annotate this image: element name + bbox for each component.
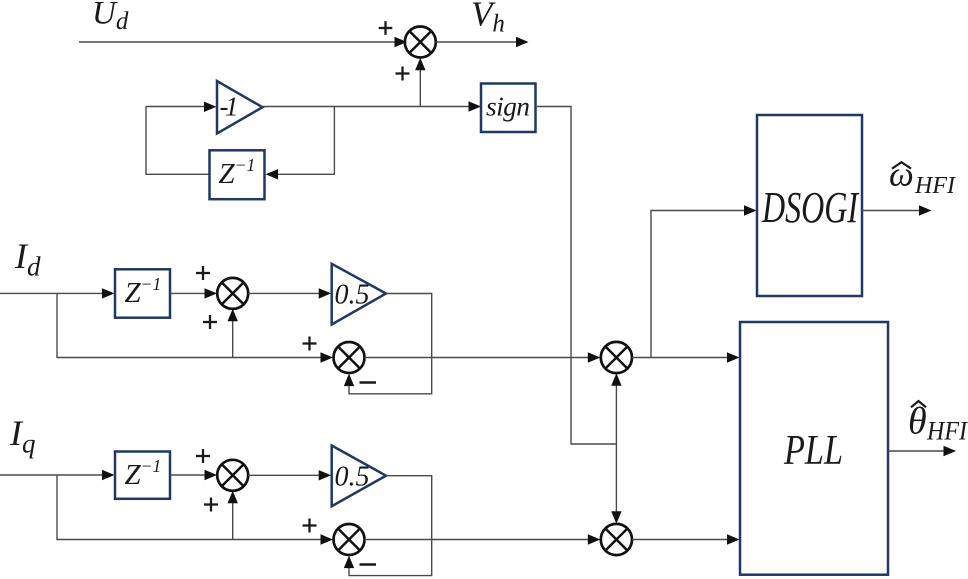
wire sign output down to multiplier junction (536, 107, 617, 445)
minus sign (M5 bottom input) (360, 563, 377, 566)
wire PLL theta output (888, 446, 956, 456)
DSOGI block (757, 115, 862, 296)
svg-text:HFI: HFI (914, 173, 956, 199)
minus sign (M2 bottom input) (360, 381, 377, 384)
wire junction down into M6 (611, 444, 621, 524)
multiplier M3 (601, 342, 632, 373)
label theta-hat HFI (908, 401, 968, 446)
multiplier M6 (601, 524, 632, 555)
adder M4 (217, 460, 248, 491)
plus sign (M4 bottom input) (204, 498, 218, 512)
wire Z3 output to M4 (170, 470, 217, 480)
wire I_d input (0, 288, 115, 298)
wire I_d branch to lower rail into M2 (57, 293, 333, 362)
wire G3 output feedback into M5 bottom (344, 476, 432, 576)
svg-text:-1: -1 (220, 92, 239, 122)
delay block Z3 (115, 452, 170, 499)
wire junction up into M3 (611, 373, 621, 444)
wire M1 output to G2 (248, 288, 331, 298)
PLL block (740, 322, 888, 575)
plus sign (M2 left input) (303, 337, 317, 351)
wire I_q branch to lower rail into M5 (57, 475, 333, 545)
wire branch down into Z1 input (266, 107, 335, 180)
sign block (481, 84, 536, 133)
wire lower rail up into M4 (228, 491, 238, 540)
delay block Z1 (210, 150, 265, 199)
plus sign (M4 left input) (196, 449, 210, 463)
plus sign (S1 left input) (379, 21, 393, 35)
label omega-hat HFI (889, 155, 956, 200)
wire I_q input (0, 470, 115, 480)
plus sign (M1 left input) (196, 266, 210, 280)
svg-text:DSOGI: DSOGI (761, 183, 859, 232)
wire G2 output feedback into M2 bottom (344, 294, 432, 394)
wire DSOGI output (862, 205, 932, 215)
svg-text:sign: sign (486, 91, 530, 122)
wire Z2 output to M1 (170, 288, 217, 298)
plus sign (M5 left input) (303, 519, 317, 533)
wire M3 output to PLL (632, 352, 740, 362)
wire Z1 output feedback (left side) (146, 107, 210, 175)
wire lower rail up into M1 (228, 309, 238, 358)
wire U_d input line (79, 37, 407, 47)
wire sign rail up into S1 (415, 58, 425, 107)
delay block Z2 (115, 269, 170, 317)
plus sign (S1 bottom input) (396, 67, 410, 81)
svg-text:0.5: 0.5 (335, 280, 370, 311)
svg-text:ω: ω (889, 155, 914, 194)
summing junction S1 (405, 27, 436, 58)
gain block G3 (332, 446, 386, 507)
wire V_h output (436, 37, 529, 47)
svg-text:PLL: PLL (783, 428, 843, 474)
adder M5 (334, 524, 365, 555)
wire M2 output to M3 (365, 352, 601, 362)
plus sign (M1 bottom input) (203, 315, 217, 329)
svg-text:0.5: 0.5 (335, 462, 370, 493)
wire G1 output to sign block (263, 101, 482, 111)
wire branch up to DSOGI (651, 205, 757, 357)
wire M5 output to M6 (365, 534, 601, 544)
gain block G2 (332, 264, 386, 325)
wire M6 output to PLL (632, 534, 740, 544)
svg-text:HFI: HFI (926, 417, 968, 446)
wire M4 output to G3 (248, 470, 331, 480)
adder M2 (334, 342, 365, 373)
wire G1 input with arrow (146, 102, 217, 112)
adder M1 (217, 278, 248, 309)
gain block G1 (217, 81, 263, 134)
